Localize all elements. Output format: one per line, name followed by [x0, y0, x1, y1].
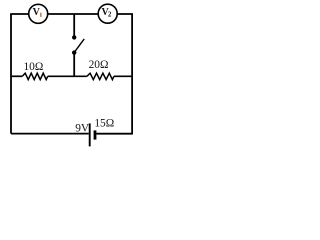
wire middle right of R2: [114, 75, 133, 77]
svg-text:V: V: [33, 7, 41, 18]
svg-text:15Ω: 15Ω: [94, 117, 114, 129]
voltmeter V1: [29, 4, 48, 23]
wire bottom right: [96, 133, 133, 135]
wire middle (node between resistors): [11, 75, 22, 77]
battery B1 long plate: [89, 123, 91, 146]
wire right side: [131, 14, 133, 134]
wire top: [10, 13, 133, 15]
wire middle between R1 and R2: [48, 75, 87, 77]
svg-text:10Ω: 10Ω: [23, 61, 43, 73]
svg-text:2: 2: [108, 11, 112, 19]
wire left side: [10, 14, 12, 134]
resistor R1 10Ω zigzag: [22, 73, 47, 79]
wire switch branch lower: [73, 53, 75, 77]
wire switch branch upper: [73, 14, 75, 37]
resistor R2 20Ω zigzag: [87, 73, 114, 79]
svg-text:9V: 9V: [75, 123, 90, 135]
battery B1 short thick plate: [94, 130, 97, 139]
svg-text:20Ω: 20Ω: [89, 59, 109, 71]
switch S1 (open): [72, 35, 84, 55]
voltmeter V2: [98, 4, 117, 23]
wire bottom left: [11, 133, 89, 135]
